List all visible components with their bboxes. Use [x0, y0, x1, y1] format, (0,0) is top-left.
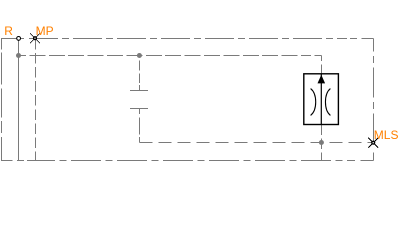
wire capacitor top stem x=139.5 [139, 56, 141, 91]
svg-text:R: R [4, 24, 13, 38]
wire right rail x=373.5 [373, 39, 375, 161]
wire mid rail y=142.5 capacitor to MLS [140, 142, 374, 144]
wire dashed drop from MP node x=35.5 [35, 39, 37, 161]
wire flow box inlet x=321.5 [321, 56, 323, 75]
wire solid drop from R terminal x=18.5 [18, 39, 20, 161]
flow sensor arrow up [318, 75, 326, 84]
flow sensor right curve [325, 89, 330, 116]
wire top rail net y=38.5 [1, 38, 374, 40]
node MP cross mark [30, 33, 40, 43]
wire bottom rail y=160.5 [1, 160, 374, 162]
terminal R circle [17, 37, 21, 41]
junction dot capacitor tap [137, 53, 142, 58]
svg-text:MP: MP [36, 24, 54, 38]
junction dot on R drop y=55.5 [16, 53, 21, 58]
node MLS cross mark [368, 138, 378, 148]
wire capacitor bottom stem x=139.5 [139, 109, 141, 143]
flow sensor box body [304, 74, 339, 125]
flow sensor left curve [311, 89, 316, 116]
wire flow box outlet x=321.5 [321, 125, 323, 161]
junction dot below flow box [319, 140, 324, 145]
svg-text:MLS: MLS [374, 128, 399, 142]
flow sensor center line [320, 74, 322, 124]
capacitor top plate [130, 90, 148, 92]
capacitor bottom plate [130, 108, 148, 110]
wire second rail y=55.5 junction to flow box [19, 55, 322, 57]
wire left rail x=1.5 [1, 39, 3, 161]
